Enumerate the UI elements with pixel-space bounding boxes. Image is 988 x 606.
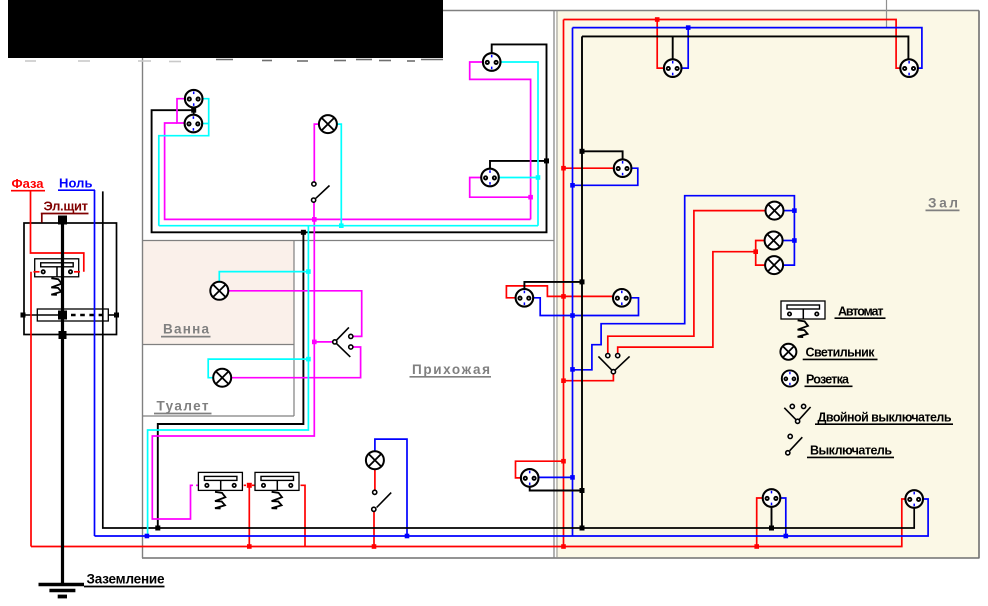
socket: kitchen right lower — [481, 169, 499, 187]
wire: cyan stub kitchen wall socket 2 — [202, 123, 208, 125]
junction: red riser / wall socket run — [561, 294, 566, 299]
socket: hallway near hall wall — [516, 289, 534, 307]
wire: magenta kitchen lamp to switch — [314, 124, 319, 182]
wire: red hallway switch to phase bus — [373, 511, 375, 546]
wall: bathroom / toilet partition — [143, 344, 294, 346]
socket: hallway bottom right — [521, 469, 539, 487]
wire: black top run across hall ceiling — [582, 36, 908, 59]
wire: hall main neutral riser (blue) — [572, 28, 574, 536]
wire: black stub hall bottom socket A to earth bus — [771, 507, 773, 528]
svg-text:Двойной выключатель: Двойной выключатель — [818, 410, 952, 424]
wire: red dashes linking hallway breakers — [237, 484, 246, 486]
wall: apartment top — [143, 10, 979, 12]
wire: magenta loop to kitchen lower right socket — [470, 178, 531, 198]
wire: red feed to hall lamps 2-3 from double switch right contact — [618, 252, 756, 354]
circuit breaker: hallway QF2 — [255, 472, 299, 508]
wire: red from hallway breaker 2 down to phase bus — [301, 485, 306, 546]
wire: red to hall bottom socket A — [757, 498, 763, 547]
wall: apartment bottom — [142, 557, 980, 559]
wire: cyan riser to kitchen right sockets — [501, 62, 538, 226]
junction: red breaker drop on phase bus — [247, 544, 252, 549]
junction: black hall riser / bottom socket stub — [580, 488, 585, 493]
junction: red riser / phase bus — [561, 544, 566, 549]
junction: cyan riser / lower socket stub — [536, 175, 541, 180]
wire: magenta kitchen bottom run — [165, 123, 531, 219]
wire: magenta bathroom lamp to double switch upper contact — [229, 291, 362, 337]
junction: red riser / upper socket stub — [561, 166, 566, 171]
svg-text:Прихожая: Прихожая — [412, 362, 490, 377]
wire: blue loop linking wall socket pair to neutral riser — [533, 298, 638, 316]
wall: apartment left — [142, 11, 144, 559]
wire: red stub to hall left upper socket — [564, 167, 614, 169]
lamp: bathroom — [210, 282, 228, 300]
junction: magenta right riser / lower socket loop — [528, 195, 533, 200]
junction: black kitchen sockets tie — [191, 108, 196, 113]
lamp: hall 2 — [765, 232, 783, 250]
wall: toilet bottom — [143, 415, 294, 417]
wire: black branch to kitchen lower right socket — [490, 161, 547, 169]
junction: magenta kitchen switch on bus — [312, 217, 317, 222]
wire: cyan toilet lamp branch — [208, 359, 308, 378]
junction: black hall riser / wall socket stub — [580, 279, 585, 284]
wire: magenta from kitchen wall sockets — [177, 99, 185, 123]
junction: blue riser / upper socket loop — [570, 183, 575, 188]
node: earth line at panel bottom edge — [59, 331, 67, 339]
wire: hall main phase riser (red) — [563, 20, 565, 547]
junction: blue lamp bus / lamp 2 — [792, 238, 797, 243]
junction: blue riser / wall socket loop — [570, 313, 575, 318]
legend: socket symbol — [782, 370, 798, 386]
junction: black toilet riser on earth bus — [155, 526, 160, 531]
socket: hall bottom B — [905, 490, 923, 508]
legend: lamp symbol — [780, 344, 796, 360]
wire: blue drop to hall top-centre socket — [682, 28, 689, 69]
wire: cyan stub kitchen lower right socket — [499, 177, 538, 179]
room fill: bathroom (Ванна) background — [143, 241, 294, 344]
wire: magenta stub from double switch common to riser — [314, 341, 332, 343]
junction: black hall riser on earth bus — [580, 526, 585, 531]
wire: blue top run across hall ceiling — [573, 28, 922, 69]
wire: blue branch to hall ceiling lamps — [573, 196, 795, 370]
wire: magenta riser to kitchen right sockets — [470, 62, 531, 219]
junction: blue lamp bus / lamp 1 — [792, 208, 797, 213]
svg-text:Ноль: Ноль — [59, 176, 93, 191]
circuit breaker QF in panel — [35, 259, 79, 295]
junction: red top run / drop to socket — [655, 17, 660, 22]
junction: red socket A drop on phase bus — [754, 544, 759, 549]
wire: blue loop for hall left upper socket — [573, 168, 638, 185]
wall: hallway / hall (Зал) partition, double line — [553, 11, 555, 559]
wire: blue to hall bottom socket A — [781, 498, 786, 536]
node: earth line on panel bus — [58, 311, 67, 320]
svg-text:Автомат: Автомат — [838, 305, 884, 319]
wire: magenta kitchen switch to bus — [313, 202, 315, 219]
wire: cyan kitchen lamp drop — [337, 124, 342, 226]
svg-text:Эл.щит: Эл.щит — [44, 199, 89, 214]
wire: black stub between kitchen wall sockets — [193, 107, 195, 116]
wire: earth (black) from panel down and across bottom to hall socket B — [103, 191, 914, 528]
wire: neutral (blue) feed from label down to bottom neutral bus — [94, 190, 96, 536]
wire: cyan bathroom lamp branch — [219, 272, 308, 283]
socket: hall bottom A — [763, 489, 781, 507]
wire: phase (red) bottom bus to hall right socket — [31, 499, 905, 547]
junction: cyan bus / kitchen lamp drop — [339, 223, 344, 228]
circuit breaker: hallway QF1 — [198, 472, 242, 508]
wire: kitchen earth loop (black) — [152, 44, 547, 232]
legend: double switch symbol — [784, 404, 810, 423]
wire: blue stubs from lamp bus to hall lamps 1,2 — [784, 210, 795, 212]
junction: red riser / switch common return — [561, 378, 566, 383]
svg-text:Зал: Зал — [928, 196, 958, 211]
legend: single switch symbol — [786, 434, 803, 455]
wire: black stub to hallway wall socket through wall — [524, 282, 582, 289]
socket: kitchen wall upper — [185, 90, 203, 108]
wire: blue from hallway lamp to neutral bus — [375, 439, 407, 536]
wire: black riser drop from kitchen earth loop to toilet corner and bottom earth bus — [158, 232, 304, 528]
switch: hall double — [598, 354, 629, 374]
wall: kitchen / hallway partition — [143, 240, 554, 242]
junction: red switch drop on phase bus — [372, 544, 377, 549]
junction: red lamps 2-3 tie — [753, 249, 758, 254]
electrical panel box (Эл.щит) — [24, 223, 117, 335]
artifact: stray vertical line top right — [886, 0, 888, 28]
junction: blue riser / bottom socket stub — [570, 475, 575, 480]
wall: apartment right — [978, 11, 980, 559]
node: panel top terminal — [58, 216, 67, 225]
earth conductor: thick black main line from panel to ground — [61, 220, 64, 584]
phase dashes to panel breaker terminals — [34, 271, 40, 273]
wire: red drop to hall top-centre socket — [657, 20, 664, 69]
wire: black stub from hallway bottom socket through wall — [530, 487, 582, 491]
wire: red feed to hall lamp 1 and double switch left contact — [608, 211, 766, 354]
junction: black hall riser / upper socket stub — [580, 149, 585, 154]
lamp: toilet — [213, 369, 231, 387]
svg-text:Выключатель: Выключатель — [810, 444, 892, 458]
junction: black socket A stub on earth bus — [769, 526, 774, 531]
lamp: kitchen — [319, 115, 337, 133]
wire: red loop over hallway wall socket pair — [506, 286, 612, 298]
svg-text:Розетка: Розетка — [806, 373, 850, 387]
censor box over title — [8, 0, 443, 58]
remnants of hidden title text below censor box — [25, 60, 181, 63]
wire: blue from hallway right socket through wall to neutral riser — [539, 476, 573, 478]
junction: cyan riser / toilet lamp branch — [306, 357, 311, 362]
junction: blue riser / lamp branch — [570, 367, 575, 372]
wire: cyan main drop from kitchen bus to neutral bus — [148, 226, 309, 536]
panel DIN bus bar — [37, 309, 108, 321]
room fill: hall (Зал) background — [556, 11, 979, 558]
junction: magenta riser / double switch common — [312, 340, 317, 345]
junction: cyan riser / bathroom lamp branch — [306, 269, 311, 274]
wire: dark red link from label to panel — [41, 214, 43, 223]
junction: red between hallway breakers — [247, 483, 252, 488]
svg-text:Светильник: Светильник — [806, 346, 876, 360]
socket: hall top centre — [664, 59, 682, 77]
lamp: hall 3 — [765, 256, 783, 274]
socket: kitchen wall lower — [185, 115, 203, 133]
socket: hall left lower — [613, 289, 631, 307]
wire: red top run across hall ceiling — [564, 20, 901, 69]
junction: cyan drop on neutral bus — [145, 534, 150, 539]
wire: cyan from kitchen wall sockets — [159, 99, 209, 226]
wire: magenta main drop from kitchen bus to hallway breaker 1 — [152, 219, 314, 519]
panel bus spare positions (dashes) — [71, 314, 103, 317]
wire: magenta toilet lamp to double switch lower contact — [231, 347, 360, 378]
wire: phase (red) feed from label into panel branch — [31, 191, 84, 272]
junction: blue hallway lamp drop on neutral bus — [405, 534, 410, 539]
wire: red link between hall lamps 2 and 3 — [756, 241, 765, 266]
socket: kitchen right upper — [483, 53, 501, 71]
wall: bathroom right — [293, 241, 295, 417]
wire: cyan kitchen bottom run — [159, 225, 538, 227]
switch: hallway double (bathroom/toilet) — [333, 327, 353, 357]
wire: red from hall double switch common to phase riser — [564, 374, 614, 381]
wire: phase (red) from breaker output down to bottom phase bus — [30, 272, 32, 547]
wire: magenta dash to hallway breaker 1 input — [196, 484, 204, 486]
junction: black kitchen loop / lower socket branch — [544, 158, 549, 163]
socket: hall left upper — [614, 159, 632, 177]
switch: kitchen single — [312, 182, 330, 202]
lamp: hall 1 — [766, 202, 784, 220]
panel bus line with end lugs — [23, 314, 67, 316]
switch: hallway single — [372, 490, 392, 511]
wire: red loop feeding hallway right socket — [516, 461, 564, 478]
junction: black kitchen loop / riser drop — [301, 230, 306, 235]
legend: breaker symbol — [781, 301, 825, 337]
svg-text:Заземление: Заземление — [87, 572, 165, 587]
wire: neutral (blue) bottom bus across flat to hall right socket — [95, 499, 929, 536]
svg-text:Фаза: Фаза — [12, 176, 45, 191]
svg-text:Туалет: Туалет — [157, 399, 209, 414]
wire: hall main earth riser (black) — [581, 36, 583, 528]
wire: black drop to hall top-centre socket — [672, 36, 674, 59]
svg-text:Ванна: Ванна — [163, 322, 209, 337]
wire: black stub to hall left upper socket — [582, 151, 623, 159]
junction: red riser / bottom socket feed — [561, 459, 566, 464]
lamp: hallway — [366, 451, 384, 469]
socket: hall top right — [900, 59, 918, 77]
wire: red hallway lamp to switch — [374, 469, 376, 490]
junction: blue socket A drop on neutral bus — [784, 534, 789, 539]
junction: blue top run / drop to socket — [686, 25, 691, 30]
ground symbol (Заземление) — [39, 583, 85, 586]
wire: red dash from hallway breaker 2 output — [293, 484, 298, 486]
wire: red drop from hallway breaker junction to phase bus — [248, 485, 250, 546]
